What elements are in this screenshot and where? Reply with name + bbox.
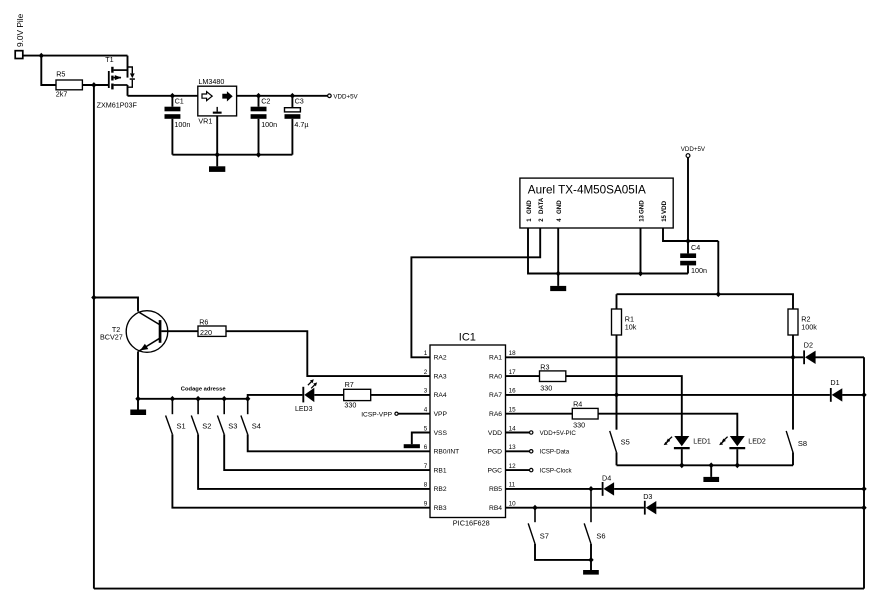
op-amp U1 voltage regulator VR1 LM3480 (198, 77, 237, 126)
wire VDD+5V down to C4 (687, 158, 689, 242)
junction D1 right rail (861, 392, 866, 398)
svg-text:4.7µ: 4.7µ (294, 120, 308, 129)
switch S6 (584, 489, 605, 544)
op-amp U2 Aurel TX-4M50SA05IA RF module (520, 178, 673, 228)
junction C2 bottom (256, 152, 261, 158)
pin 2 name/number (424, 369, 447, 381)
svg-text:DATA: DATA (538, 197, 545, 214)
svg-text:5: 5 (424, 425, 428, 432)
svg-text:2k7: 2k7 (56, 90, 68, 99)
wire ICSP-VPP to IC1 pin4 (398, 413, 430, 415)
resistor R4 330 (572, 400, 598, 430)
ground regulator section (209, 166, 225, 172)
resistor R6 220 (198, 317, 226, 337)
svg-text:R5: R5 (56, 70, 65, 79)
wire S4 to IC1 pin6 (248, 434, 430, 451)
switch S7 (528, 508, 549, 544)
switch S5 (610, 395, 630, 453)
junction led rail gnd tap (709, 462, 714, 468)
wire battery tap down to R5 (41, 56, 56, 85)
pin 5 name/number (424, 425, 448, 437)
wire S7 bottom to S6 bottom (535, 544, 591, 560)
wire R7 to IC1 pin3 RA4 (371, 394, 430, 396)
pin 7 name/number (424, 463, 447, 475)
wire battery to T1 drain (23, 55, 128, 57)
node ICSP-Clock pin (530, 468, 573, 475)
wire T2 emitter down to codage rail (137, 351, 139, 398)
wire T2 base to R6 (161, 330, 198, 332)
wire D4 to right rail (614, 488, 864, 490)
svg-text:330: 330 (540, 384, 552, 393)
wire R6 to IC1 pin2 RA3 (226, 331, 430, 376)
junction T2 collector tap on left rail (91, 295, 96, 301)
svg-text:11: 11 (509, 482, 516, 489)
svg-text:RA2: RA2 (434, 355, 447, 362)
wire left rail down full left side (93, 85, 95, 589)
pin 4 name/number (424, 407, 448, 419)
ground led rail (703, 477, 719, 482)
svg-text:RA6: RA6 (489, 411, 502, 418)
wire S3 to IC1 pin7 (224, 434, 430, 470)
capacitor C3 4.7u polarized (285, 96, 309, 155)
wire T1 source to VR1 input (128, 95, 198, 97)
wire right rail (863, 357, 865, 588)
junction C2 top (256, 93, 261, 99)
node VDD+5V-PIC pin (530, 430, 577, 437)
svg-text:LED2: LED2 (748, 438, 766, 445)
junction pin4 gnd rail (556, 271, 561, 277)
svg-text:9.0V Pile: 9.0V Pile (15, 13, 25, 47)
svg-text:Codage adresse: Codage adresse (181, 386, 227, 392)
wire led rail to ground (710, 465, 712, 477)
wire pull-up rail R1 to R2 (617, 294, 794, 309)
svg-text:LED1: LED1 (693, 438, 711, 445)
junction S6/S7 ground node (588, 557, 593, 563)
svg-text:18: 18 (509, 350, 517, 357)
junction VR1 gnd pin on rail (215, 152, 220, 158)
svg-text:VDD+5V: VDD+5V (681, 146, 706, 153)
svg-text:9: 9 (424, 501, 428, 508)
svg-text:100n: 100n (261, 120, 277, 129)
svg-text:GND: GND (638, 200, 645, 214)
LED3 (295, 379, 317, 413)
svg-text:4: 4 (424, 407, 428, 414)
svg-text:7: 7 (424, 463, 428, 470)
junction S2 tap (195, 396, 200, 402)
svg-text:S8: S8 (798, 439, 807, 448)
svg-text:ICSP-VPP: ICSP-VPP (361, 411, 392, 418)
wire capacitor ground rail (172, 154, 292, 156)
wire VR1 output to VDD+5V pin (237, 95, 328, 97)
svg-text:S2: S2 (202, 422, 211, 431)
wire S8 to led rail (792, 452, 794, 465)
pin 9 name/number (424, 501, 447, 513)
svg-text:C4: C4 (691, 243, 700, 252)
svg-text:VDD+5V: VDD+5V (333, 94, 358, 101)
svg-text:C2: C2 (261, 96, 270, 105)
wire LED3 to R7 (314, 394, 343, 396)
node ICSP-Data pin (530, 449, 570, 456)
wire R5 to T1 gate (82, 84, 108, 86)
junction S1 tap (170, 396, 175, 402)
svg-text:VDD: VDD (488, 430, 502, 437)
svg-text:VDD: VDD (661, 200, 668, 214)
wire codage adresse rail (138, 395, 302, 399)
wire VR1 gnd pin (216, 116, 218, 166)
wire led ground rail (617, 464, 794, 466)
pin 18 name/number (489, 350, 516, 362)
pin 17 name/number (489, 369, 516, 381)
svg-text:100k: 100k (801, 323, 817, 332)
junction D4 right rail (861, 486, 866, 492)
switch S2 (191, 399, 211, 435)
pin 12 name/number (488, 463, 517, 475)
pin 11 name/number (489, 482, 516, 494)
svg-text:17: 17 (509, 369, 517, 376)
svg-text:220: 220 (200, 328, 212, 337)
junction S6 tap (588, 486, 593, 492)
node ICSP-VPP pin (361, 411, 398, 418)
wire IC1 pin18 RA1 to D2 (506, 356, 804, 358)
wire IC1 pin14 stub (506, 432, 530, 434)
svg-text:RB2: RB2 (434, 486, 447, 493)
wire IC1 pin11 RB5 to D4 (506, 488, 602, 490)
svg-text:S5: S5 (621, 437, 630, 446)
svg-text:100n: 100n (174, 120, 190, 129)
svg-text:D3: D3 (643, 492, 652, 501)
wire IC1 pin17 RA0 to R3 (506, 375, 540, 377)
ground switch S6/S7 (583, 570, 599, 575)
switch S3 (217, 399, 237, 435)
junction pin13 gnd rail (638, 271, 643, 277)
svg-text:S3: S3 (228, 422, 237, 431)
svg-text:ZXM61P03F: ZXM61P03F (97, 100, 138, 109)
pin 14 name/number (488, 425, 516, 437)
wire to switch ground (590, 560, 592, 570)
ground T2 emitter (130, 410, 146, 416)
svg-text:13: 13 (509, 444, 517, 451)
svg-text:R7: R7 (345, 380, 354, 389)
pin 10 name/number (489, 501, 516, 513)
pin 1 name/number (424, 350, 447, 362)
svg-text:LED3: LED3 (295, 406, 313, 413)
junction C1 top (170, 93, 175, 99)
node 9.0V Pile battery terminal (15, 13, 25, 58)
svg-text:2: 2 (424, 369, 428, 376)
capacitor C2 100n (251, 96, 278, 155)
svg-text:330: 330 (573, 420, 585, 429)
svg-text:T1: T1 (105, 55, 113, 64)
ground Aurel module (550, 286, 566, 291)
diode D4 (602, 474, 614, 496)
svg-text:10: 10 (509, 501, 517, 508)
svg-text:15: 15 (662, 214, 668, 221)
junction LED1 bottom (679, 462, 684, 468)
svg-text:C3: C3 (295, 96, 304, 105)
diode D2 (804, 341, 816, 365)
svg-text:S4: S4 (252, 422, 261, 431)
pin 3 name/number (424, 388, 447, 400)
junction T2 emitter / codage rail (135, 396, 140, 402)
wire IC1 pin10 RB4 to D3 (506, 507, 644, 509)
resistor R2 100k (788, 309, 817, 335)
wire bottom rail (94, 588, 864, 590)
svg-text:RB3: RB3 (434, 505, 447, 512)
svg-text:PGC: PGC (488, 467, 503, 474)
junction D3 right rail (861, 505, 866, 511)
svg-text:10k: 10k (625, 323, 637, 332)
switch S8 (786, 431, 807, 453)
switch S1 (166, 399, 186, 435)
wire Aurel pin4 GND to ground (557, 228, 559, 286)
wire R1 bottom to S5 (616, 335, 618, 430)
wire Aurel pin13 GND (640, 228, 642, 274)
svg-text:RB5: RB5 (489, 486, 502, 493)
svg-text:LM3480: LM3480 (198, 77, 224, 86)
junction C3 top (290, 93, 295, 99)
svg-text:RA1: RA1 (489, 355, 502, 362)
svg-text:IC1: IC1 (459, 332, 476, 344)
svg-text:1: 1 (424, 350, 428, 357)
svg-text:RA7: RA7 (489, 392, 502, 399)
svg-text:R4: R4 (573, 400, 582, 409)
svg-text:GND: GND (526, 200, 533, 214)
svg-text:RB1: RB1 (434, 467, 447, 474)
op-amp IC1 PIC16F628 (430, 332, 506, 528)
wire Aurel pin15 VDD to +5V net (663, 228, 718, 241)
wire VDD net down to pull-up rail (717, 241, 719, 294)
junction S7 tap (532, 505, 537, 511)
pin 16 name/number (489, 388, 516, 400)
junction R1 / S5 node (614, 392, 619, 398)
pin 6 name/number (424, 444, 459, 456)
svg-text:Aurel TX-4M50SA05IA: Aurel TX-4M50SA05IA (528, 183, 646, 196)
wire S2 to IC1 pin8 (198, 434, 430, 489)
svg-text:BCV27: BCV27 (100, 332, 123, 341)
svg-text:S6: S6 (596, 531, 605, 540)
wire D3 to right rail (656, 507, 864, 509)
wire S6 bottom (590, 544, 592, 560)
svg-text:RB4: RB4 (489, 505, 502, 512)
svg-text:R6: R6 (199, 317, 208, 326)
svg-text:6: 6 (424, 444, 428, 451)
wire T2 emitter ground stub (137, 399, 139, 410)
wire left rail to T2 collector (94, 298, 138, 312)
junction S4 tap (245, 396, 250, 402)
svg-text:VPP: VPP (434, 411, 448, 418)
svg-text:D1: D1 (830, 378, 839, 387)
wire R3 to LED1 (566, 376, 682, 436)
node VDD+5V supply pin top (681, 146, 706, 158)
svg-text:S1: S1 (177, 422, 186, 431)
svg-text:R3: R3 (540, 362, 549, 371)
wire Aurel pin2 DATA to IC1 pin1 (411, 228, 540, 357)
junction R2 / S8 / D2 node (790, 354, 795, 360)
capacitor C1 100n (165, 96, 191, 155)
svg-text:14: 14 (509, 425, 517, 432)
svg-text:VR1: VR1 (198, 117, 212, 126)
svg-text:RB0/INT: RB0/INT (434, 449, 460, 456)
wire D2 to right rail (816, 356, 865, 358)
resistor R7 330 (344, 380, 371, 409)
wire IC1 pin12 stub (506, 469, 530, 471)
wire R4 to LED2 (598, 414, 737, 436)
junction battery tap (39, 53, 44, 59)
wire IC1 pin13 stub (506, 450, 530, 452)
svg-text:8: 8 (424, 482, 428, 489)
svg-text:PGD: PGD (488, 449, 503, 456)
junction VDD rail tap (716, 291, 721, 297)
svg-text:PIC16F628: PIC16F628 (453, 519, 490, 528)
svg-text:S7: S7 (540, 531, 549, 540)
svg-text:RA3: RA3 (434, 373, 447, 380)
diode D1 (830, 378, 842, 402)
svg-text:D2: D2 (804, 341, 813, 350)
junction S3 tap (222, 396, 227, 402)
svg-text:RA0: RA0 (489, 373, 502, 380)
svg-text:VDD+5V-PIC: VDD+5V-PIC (540, 430, 577, 437)
svg-text:100n: 100n (691, 266, 707, 275)
wire IC1 pin16 RA7 to D1 (506, 394, 830, 396)
ground VSS (404, 444, 420, 448)
switch S4 (241, 399, 261, 435)
wire D1 to right rail (842, 394, 864, 396)
svg-text:GND: GND (556, 200, 563, 214)
LED1 (664, 436, 711, 465)
svg-text:C1: C1 (175, 96, 184, 105)
transistor T2 BCV27 (100, 311, 168, 353)
wire S1 to IC1 pin9 (172, 434, 430, 507)
pin 8 name/number (424, 482, 447, 494)
svg-text:12: 12 (509, 463, 517, 470)
transistor T1 ZXM61P03F p-mosfet (97, 55, 138, 109)
LED2 (719, 436, 766, 465)
svg-text:330: 330 (344, 401, 356, 410)
wire Aurel pin1 GND down to gnd rail (528, 228, 688, 274)
wire R2 bottom through D2 node to S8 (792, 335, 794, 430)
junction T1 gate / pull-down rail (91, 82, 96, 88)
resistor R1 10k (612, 309, 637, 335)
svg-text:ICSP-Clock: ICSP-Clock (540, 468, 573, 475)
junction VDD / C4 (685, 238, 690, 244)
svg-text:ICSP-Data: ICSP-Data (540, 449, 570, 456)
junction LED2 bottom (735, 462, 740, 468)
resistor R5 (56, 70, 83, 99)
svg-text:13: 13 (639, 214, 645, 221)
svg-text:16: 16 (509, 388, 517, 395)
capacitor C4 100n (680, 241, 707, 275)
wire S5 to led rail (616, 452, 618, 465)
wire IC1 pin15 RA6 to R4 (506, 413, 573, 415)
pin 15 name/number (489, 407, 516, 419)
svg-text:D4: D4 (602, 474, 611, 483)
diode D3 (643, 492, 656, 515)
pin 13 name/number (488, 444, 517, 456)
node VDD+5V output pin (328, 94, 359, 101)
svg-text:VSS: VSS (434, 430, 448, 437)
svg-text:RA4: RA4 (434, 392, 447, 399)
resistor R3 330 (540, 362, 566, 392)
wire IC1 pin5 VSS to ground (412, 433, 430, 445)
svg-text:3: 3 (424, 388, 428, 395)
svg-text:15: 15 (509, 407, 517, 414)
